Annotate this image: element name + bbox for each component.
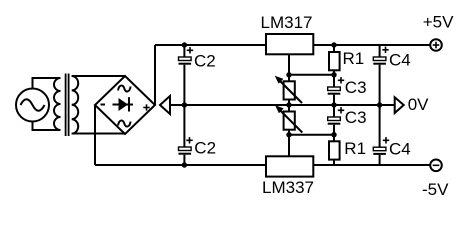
C4 upper plus sign — [382, 47, 388, 53]
svg-text:C3: C3 — [345, 78, 367, 97]
wire AC top to transformer primary — [33, 78, 61, 89]
node LM317 adj junction — [286, 72, 291, 77]
svg-text:LM337: LM337 — [262, 178, 314, 197]
svg-text:LM317: LM317 — [261, 13, 313, 32]
node R1 top rail — [331, 42, 336, 47]
resistor R1 upper — [329, 45, 340, 75]
C3 upper plus sign — [338, 77, 344, 83]
node R1/C3 upper junction — [331, 72, 336, 77]
node C3 0V rail — [331, 102, 336, 107]
svg-text:C2: C2 — [194, 138, 216, 157]
wire bottom rail left segment to LM337 — [95, 164, 266, 166]
transformer T1 core — [66, 74, 69, 137]
potentiometer RV1 box — [284, 81, 295, 99]
terminal +5V — [430, 39, 442, 51]
wire secondary top to bridge top corner — [72, 75, 125, 77]
wire bridge - corner down to bottom rail — [94, 105, 96, 165]
svg-text:C4: C4 — [389, 139, 411, 158]
bridge AC tilde bottom — [118, 121, 131, 127]
bridge AC tilde top — [118, 86, 131, 92]
node C2 top rail — [182, 42, 187, 47]
capacitor C2 upper — [179, 45, 192, 105]
regulator U1 LM317 box — [266, 34, 313, 54]
wire LM337 adj junction to R1/C3 junction — [289, 134, 334, 136]
node pots 0V rail — [286, 102, 291, 107]
wire RV1 bottom to 0V rail — [288, 100, 290, 112]
bridge plus sign — [143, 104, 149, 110]
svg-text:+5V: +5V — [423, 13, 454, 32]
potentiometer RV1 arrow — [275, 76, 302, 103]
capacitor C3 lower — [328, 105, 341, 135]
C4 lower plus sign — [383, 137, 389, 143]
node LM337 adj junction — [286, 132, 291, 137]
svg-text:R1: R1 — [343, 49, 365, 68]
svg-text:0V: 0V — [408, 95, 429, 114]
svg-text:C3: C3 — [345, 108, 367, 127]
node arrow 0V left (to transformer centre tap) — [160, 96, 170, 114]
capacitor C3 upper — [328, 75, 341, 105]
wire AC bottom to transformer primary — [33, 122, 61, 131]
wire middle 0V rail — [170, 104, 395, 106]
wire LM317 ADJ pin down — [288, 54, 290, 81]
capacitor C4 upper — [373, 45, 386, 105]
regulator U2 LM337 box — [266, 156, 313, 176]
bridge diode symbol — [113, 97, 134, 111]
node R1/C3 lower junction — [331, 132, 336, 137]
wire RV2 bottom to LM337 adj junction — [288, 130, 290, 157]
C2 lower plus sign — [186, 137, 192, 143]
resistor R1 lower — [329, 135, 340, 165]
wire top rail right segment — [313, 44, 430, 46]
potentiometer RV2 arrow — [275, 105, 302, 132]
transformer T1 secondary winding — [72, 76, 79, 134]
C2 upper plus sign — [187, 47, 193, 53]
svg-text:-5V: -5V — [422, 180, 449, 199]
wire top rail left segment to LM317 — [155, 44, 266, 46]
AC source V1 — [16, 89, 49, 122]
C3 lower plus sign — [338, 107, 344, 113]
wire bottom rail right segment — [313, 164, 430, 166]
svg-text:C2: C2 — [194, 52, 216, 71]
wire secondary bottom to bridge bottom corner — [72, 133, 125, 135]
node C2 0V rail — [182, 102, 187, 107]
capacitor C2 lower — [179, 105, 192, 165]
bridge minus sign — [101, 104, 106, 106]
capacitor C4 lower — [373, 105, 386, 165]
svg-text:C4: C4 — [389, 51, 411, 70]
wire bridge + corner up to top rail — [154, 45, 156, 105]
node C2 bottom rail — [182, 162, 187, 167]
terminal -5V — [430, 160, 442, 172]
junction dots — [182, 42, 383, 167]
transformer T1 primary winding — [54, 78, 61, 130]
potentiometer RV2 box — [284, 112, 295, 130]
wire LM317 adj to R1/C3 junction — [289, 74, 334, 76]
bridge rectifier D1 diamond — [95, 76, 155, 134]
svg-text:R1: R1 — [344, 139, 366, 158]
node arrow 0V output — [395, 97, 404, 113]
node C4 0V rail — [377, 102, 382, 107]
